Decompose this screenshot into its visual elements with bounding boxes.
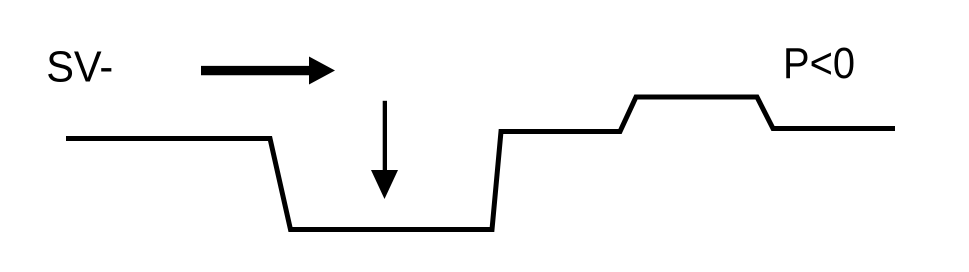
thick right arrow — [201, 57, 335, 85]
down arrow — [371, 101, 398, 199]
wire waveform trace — [66, 97, 895, 230]
svg-text:SV-: SV- — [46, 43, 113, 92]
svg-text:P<0: P<0 — [783, 39, 855, 88]
